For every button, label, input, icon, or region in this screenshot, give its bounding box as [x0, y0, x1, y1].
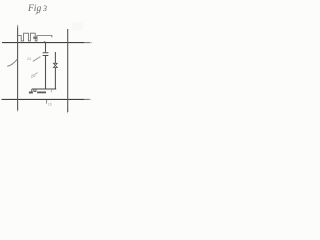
svg-text:24: 24: [27, 57, 31, 61]
label 20: [29, 73, 36, 79]
arrowhead right clock: [67, 110, 68, 114]
arrowhead left clock: [17, 108, 18, 112]
leader line to capacitor from label 24: [33, 57, 41, 62]
figure title g descender: [36, 12, 38, 15]
wire bottom bus phi2: [2, 98, 85, 100]
diode D bowtie symbol: [53, 63, 57, 67]
node blob second electrode: [33, 37, 37, 39]
diode D upper lead: [54, 52, 56, 63]
transistor T2 electrode bar left: [29, 92, 33, 94]
transistor T2 electrode bar right: [37, 92, 46, 94]
figure title Fig 3: [27, 4, 47, 14]
svg-text:3: 3: [42, 4, 47, 13]
svg-text:16: 16: [48, 103, 52, 107]
node junction on top bus: [44, 41, 46, 43]
wire bottom rail left drop: [31, 89, 33, 92]
wire bottom rail: [32, 88, 56, 90]
scan smudge: [72, 22, 83, 30]
wire right clock vertical: [67, 29, 69, 112]
transistor T1 gate electrodes (top squarewave row): [18, 33, 52, 41]
label 20 leader tail: [35, 73, 37, 75]
capacitor C lower lead: [45, 56, 47, 89]
wire output stub below bottom bus: [46, 100, 48, 104]
wire top bus phi1: [2, 42, 84, 44]
diode D lower lead: [54, 68, 56, 89]
svg-text:Fig: Fig: [27, 4, 41, 14]
transistor T2 faint tick right: [50, 90, 52, 92]
capacitor C branch upper lead: [45, 43, 47, 52]
capacitor C plates: [43, 53, 49, 56]
wire left clock vertical: [17, 28, 19, 111]
transistor T2 rail notch: [34, 89, 36, 91]
leader curve to left vertical: [7, 59, 17, 67]
